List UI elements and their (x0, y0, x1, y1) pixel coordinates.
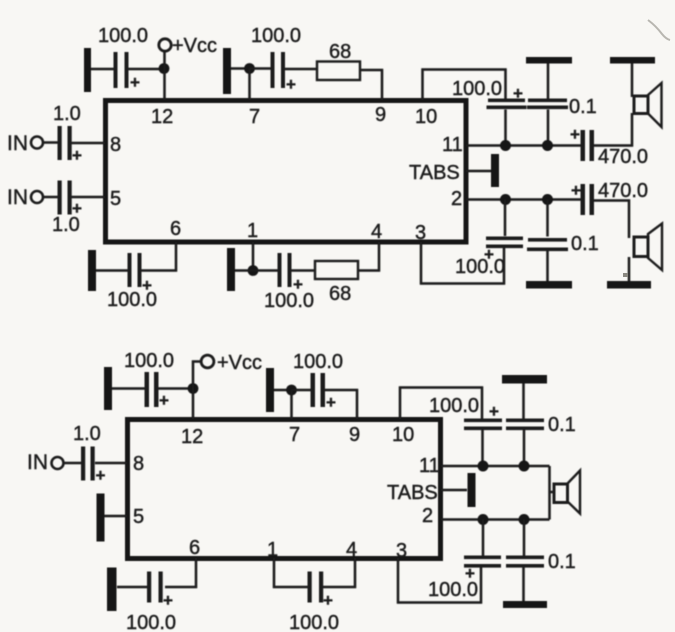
ground bar (pin 1 cap) (227, 248, 235, 291)
svg-text:+: + (489, 402, 499, 421)
svg-text:TABS: TABS (409, 162, 460, 184)
wire (291, 269, 315, 272)
wire (547, 64, 550, 100)
svg-text:12: 12 (181, 426, 203, 448)
wire (594, 113, 632, 146)
node junction (500, 140, 511, 151)
capacitor C1 100.0 (114, 52, 141, 92)
wire (117, 586, 148, 589)
wire (193, 362, 201, 420)
svg-text:10: 10 (392, 424, 414, 446)
ground bar (TABS) (491, 154, 499, 187)
wire (504, 110, 507, 146)
wire pin 10 loop (423, 70, 506, 101)
capacitor C9 100.0 (128, 253, 153, 295)
svg-text:12: 12 (151, 106, 173, 128)
svg-text:0.1: 0.1 (569, 96, 597, 118)
wire (250, 67, 273, 70)
svg-text:6: 6 (189, 537, 200, 559)
capacitor C14 100.0 (311, 373, 337, 412)
wire (292, 389, 312, 392)
wire (631, 64, 634, 98)
svg-text:7: 7 (289, 424, 300, 446)
node pin12/Vcc junction (188, 383, 199, 394)
capacitor C16 0.1 (506, 419, 544, 431)
capacitor C6 470.0 (571, 181, 594, 215)
wire bridge (548, 466, 551, 520)
capacitor C10 100.0 (278, 253, 304, 294)
svg-text:100.0: 100.0 (429, 395, 479, 417)
wire (358, 242, 379, 271)
wire (546, 248, 549, 281)
ground bar (pin 6 cap) (88, 250, 96, 291)
svg-text:+: + (326, 393, 336, 412)
wire (285, 68, 317, 71)
node junction (519, 514, 530, 525)
wire (504, 200, 507, 237)
svg-text:1.0: 1.0 (52, 214, 80, 236)
svg-text:4: 4 (346, 539, 357, 561)
wire (235, 269, 253, 272)
capacitor C18 0.1 (506, 556, 544, 568)
wire pin 3 to C17 (398, 558, 481, 603)
svg-text:TABS: TABS (387, 482, 438, 504)
wire pin 5 (104, 515, 127, 518)
svg-text:6: 6 (170, 218, 181, 240)
node IN terminal (27, 451, 64, 474)
node junction (542, 140, 553, 151)
ground bar (pin 6 cap) (107, 568, 117, 612)
wire (248, 69, 251, 101)
wire pin 2 (466, 198, 581, 201)
wire (91, 68, 115, 71)
svg-text:100.0: 100.0 (428, 579, 478, 601)
svg-text:2: 2 (422, 505, 433, 527)
svg-text:+Vcc: +Vcc (217, 352, 262, 374)
svg-text:1: 1 (247, 220, 258, 242)
ground bar (top, 0.1 cap) (502, 375, 547, 384)
+Vcc terminal (201, 352, 262, 374)
svg-text:9: 9 (349, 424, 360, 446)
svg-text:11: 11 (442, 134, 463, 156)
scan smudge top right (648, 20, 670, 40)
svg-text:100.0: 100.0 (264, 290, 314, 312)
wire (482, 520, 485, 556)
wire (112, 387, 145, 390)
wire (523, 430, 526, 466)
svg-text:8: 8 (133, 453, 144, 475)
wire pin 6 (165, 558, 196, 587)
wire (64, 462, 83, 465)
svg-text:470.0: 470.0 (598, 180, 648, 202)
svg-text:100.0: 100.0 (452, 78, 502, 100)
wire (522, 384, 525, 420)
svg-text:100.0: 100.0 (107, 289, 157, 311)
svg-text:IN: IN (27, 451, 48, 474)
capacitor C19 100.0 (147, 572, 173, 611)
speaker LS3 (550, 471, 581, 514)
svg-text:+: + (72, 146, 82, 165)
svg-text:7: 7 (249, 106, 260, 128)
node IN 1 terminal (7, 132, 43, 155)
wire (163, 51, 166, 100)
wire (547, 110, 550, 146)
svg-text:1: 1 (267, 539, 278, 561)
svg-text:68: 68 (329, 41, 351, 63)
wire (628, 257, 631, 281)
scan tick (623, 273, 628, 277)
resistor R1 68 (317, 62, 360, 81)
svg-text:470.0: 470.0 (598, 146, 648, 168)
ground bar (pin 7 cap) (266, 368, 274, 412)
wire (231, 67, 245, 70)
wire (546, 200, 549, 237)
wire pin 1 (274, 558, 308, 587)
wire (290, 390, 293, 419)
+Vcc terminal (159, 35, 217, 57)
capacitor C12 1.0 (58, 181, 83, 219)
wire (360, 70, 382, 100)
node pin 1 junction (248, 265, 259, 276)
wire (158, 387, 193, 390)
svg-text:IN: IN (7, 186, 28, 209)
svg-text:+: + (159, 391, 169, 410)
wire (71, 196, 105, 199)
wire pin 6 (141, 242, 176, 271)
wire (481, 430, 484, 466)
wire (128, 68, 164, 71)
svg-text:IN: IN (7, 132, 28, 155)
svg-text:68: 68 (329, 283, 351, 305)
svg-text:2: 2 (451, 188, 462, 210)
svg-text:4: 4 (371, 221, 382, 243)
wire (96, 269, 129, 272)
wire pin 1 (252, 242, 255, 271)
capacitor C7 0.1 (527, 238, 568, 251)
capacitor C15 100.0 (464, 402, 502, 430)
capacitor C8 100.0 (484, 237, 523, 265)
node pin12/Vcc junction (159, 63, 170, 74)
svg-text:8: 8 (110, 134, 121, 156)
wire pin 10 loop (400, 388, 482, 420)
node pin 7 junction (244, 63, 255, 74)
svg-text:+: + (571, 181, 581, 200)
ground bar (top, 0.1 cap) (526, 57, 572, 64)
wire pin 3 to C8 (421, 242, 504, 284)
wire TABS (466, 170, 491, 173)
svg-text:100.0: 100.0 (98, 25, 148, 47)
wire (522, 568, 525, 602)
wire pin 11 (466, 144, 581, 147)
node junction (542, 194, 553, 205)
ground bar (TABS) (468, 473, 476, 507)
svg-text:1.0: 1.0 (53, 103, 81, 125)
svg-text:+: + (96, 466, 106, 485)
capacitor C13 100.0 (145, 372, 170, 410)
svg-text:1.0: 1.0 (73, 423, 101, 445)
capacitor C20 100.0 (308, 572, 334, 611)
wire (325, 390, 357, 419)
capacitor C17 100.0 (464, 556, 501, 584)
svg-text:5: 5 (110, 188, 121, 210)
wire (43, 141, 58, 144)
svg-text:100.0: 100.0 (293, 351, 343, 373)
svg-text:0.1: 0.1 (548, 414, 576, 436)
svg-text:+: + (570, 125, 580, 144)
speaker LS1 (634, 83, 662, 127)
ground bar (bottom, 0.1 cap) (503, 601, 547, 608)
svg-text:+: + (513, 84, 523, 103)
speaker LS2 (634, 224, 662, 271)
ground bar (bottom, speaker) (607, 281, 651, 289)
wire (253, 269, 279, 272)
svg-text:100.0: 100.0 (124, 350, 174, 372)
wire (274, 389, 287, 392)
wire (43, 196, 58, 199)
ground bar (top, speaker) (610, 57, 655, 64)
svg-text:+Vcc: +Vcc (172, 35, 217, 57)
capacitor C2 100.0 (271, 52, 297, 94)
svg-text:+: + (163, 591, 173, 610)
svg-text:100.0: 100.0 (126, 612, 176, 632)
svg-text:10: 10 (415, 106, 437, 128)
ground bar (bottom, 0.1 cap) (526, 281, 572, 289)
node junction (478, 461, 489, 472)
svg-text:100.0: 100.0 (455, 256, 505, 278)
wire pin 11 (441, 465, 550, 468)
svg-text:100.0: 100.0 (289, 612, 339, 632)
node junction (519, 461, 530, 472)
svg-text:100.0: 100.0 (251, 25, 301, 47)
svg-text:0.1: 0.1 (548, 551, 576, 573)
op-amp U2 body (128, 420, 441, 559)
wire TABS (441, 489, 467, 492)
node pin 7 junction (286, 385, 297, 396)
capacitor C11 1.0 (58, 126, 83, 165)
svg-text:+: + (130, 73, 140, 92)
capacitor C5 0.1 (527, 99, 568, 110)
resistor R2 68 (315, 261, 358, 279)
capacitor C21 1.0 (81, 447, 106, 486)
capacitor C4 470.0 (570, 125, 594, 161)
node IN 2 terminal (7, 186, 43, 209)
svg-text:0.1: 0.1 (571, 233, 599, 255)
wire pin 4 (323, 558, 355, 587)
op-amp U1 body (106, 101, 467, 243)
wire pin 2 (441, 518, 550, 521)
ground bar (pin 12 cap) (104, 367, 112, 410)
wire (71, 142, 105, 145)
ground bar (pin 5) (97, 494, 105, 542)
wire (95, 462, 127, 465)
node junction (500, 194, 511, 205)
wire (523, 520, 526, 556)
ground bar (pin 7 cap) (223, 48, 231, 94)
svg-text:11: 11 (419, 455, 440, 477)
svg-text:5: 5 (133, 506, 144, 528)
svg-text:3: 3 (415, 222, 426, 244)
ground bar (pin 12 cap) (84, 48, 91, 92)
capacitor C3 100.0 (487, 84, 527, 109)
svg-text:9: 9 (375, 104, 386, 126)
wire (594, 201, 629, 239)
svg-text:+: + (323, 591, 333, 610)
node junction (478, 514, 489, 525)
svg-text:+: + (286, 75, 296, 94)
